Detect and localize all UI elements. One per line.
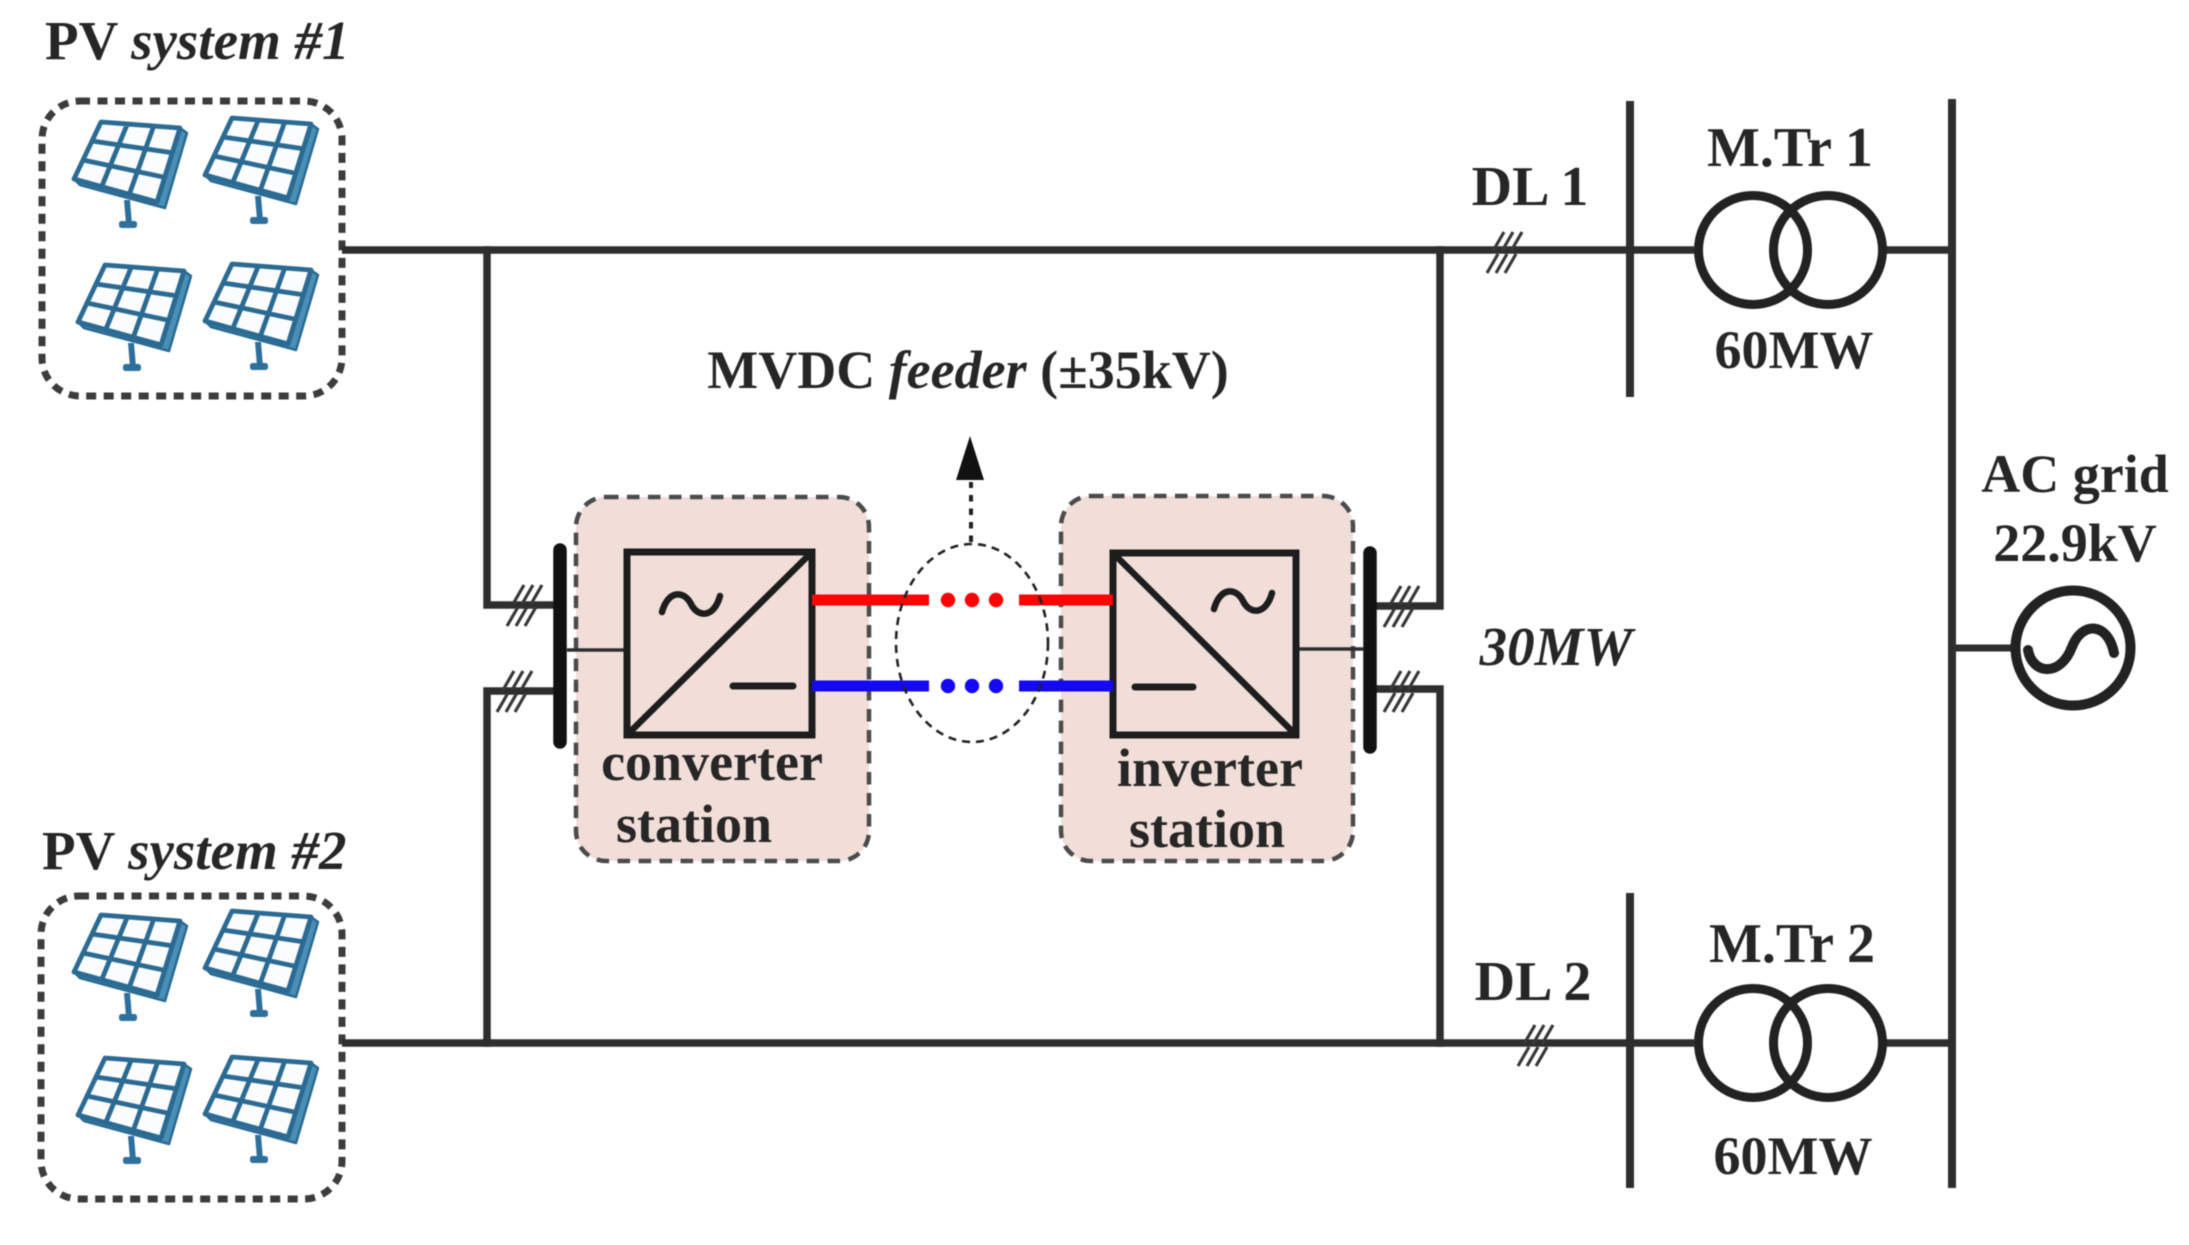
svg-text:converter: converter	[601, 732, 823, 792]
converter AC tilde	[662, 594, 720, 613]
wire inverter to bus	[1294, 647, 1364, 651]
PV panel 2d	[205, 1057, 318, 1163]
svg-text:M.Tr 2: M.Tr 2	[1709, 913, 1875, 975]
PV array box 2	[41, 896, 342, 1199]
hatch inv lower	[1384, 671, 1419, 712]
svg-text:station: station	[616, 794, 772, 854]
inverter AC bus bar	[1363, 553, 1377, 747]
inverter U2 square	[1113, 553, 1296, 735]
hatch conv upper	[507, 585, 542, 626]
svg-text:DL 1: DL 1	[1472, 156, 1589, 218]
svg-text:inverter: inverter	[1117, 738, 1303, 798]
wire bottom feeder DL2	[342, 1039, 1950, 1047]
MVDC negative pole wire	[812, 681, 1113, 692]
AC grid source G1	[2016, 591, 2131, 706]
AC grid bus	[1948, 99, 1956, 1188]
wire bus to converter	[567, 648, 629, 652]
wire right tap from inverter	[1378, 250, 1440, 1043]
wire bus to AC source	[1952, 645, 2014, 652]
inverter station box	[1061, 496, 1353, 861]
PV panel 2a	[74, 915, 187, 1021]
inverter U2 diagonal	[1113, 553, 1296, 735]
svg-text:AC grid: AC grid	[1981, 444, 2169, 504]
wire top feeder DL1	[342, 246, 1950, 254]
M.Tr1 feeder bar	[1626, 101, 1634, 397]
svg-text:PV system #1: PV system #1	[45, 10, 350, 71]
transformer M.Tr 1	[1699, 196, 1883, 305]
inverter DC dash	[1135, 684, 1193, 691]
hatch DL1	[1487, 232, 1522, 273]
converter U1 diagonal	[627, 552, 812, 735]
converter U1 square	[627, 552, 812, 735]
svg-text:M.Tr 1: M.Tr 1	[1707, 117, 1873, 179]
PV panel 2c	[78, 1058, 191, 1164]
PV panel 2b	[205, 911, 318, 1017]
M.Tr2 feeder bar	[1626, 893, 1634, 1188]
PV panel 1b	[205, 118, 318, 224]
MVDC positive pole wire	[812, 595, 1113, 606]
svg-text:60MW: 60MW	[1715, 320, 1874, 380]
svg-text:PV system #2: PV system #2	[42, 820, 347, 881]
transformer M.Tr 2	[1699, 989, 1883, 1098]
PV panel 1d	[205, 264, 318, 370]
PV panel 1a	[74, 122, 187, 228]
svg-text:station: station	[1129, 799, 1285, 859]
converter DC dash	[733, 683, 793, 690]
hatch DL2	[1518, 1025, 1553, 1066]
PV panel 1c	[78, 265, 191, 371]
inverter AC tilde	[1214, 591, 1272, 610]
svg-text:22.9kV: 22.9kV	[1993, 513, 2157, 573]
PV array box 1	[42, 101, 342, 396]
hatch inv upper	[1384, 586, 1419, 627]
svg-text:DL 2: DL 2	[1475, 951, 1592, 1013]
MVDC cable ellipse	[896, 544, 1048, 742]
svg-text:30MW: 30MW	[1479, 616, 1637, 677]
svg-text:MVDC feeder (±35kV): MVDC feeder (±35kV)	[707, 340, 1229, 400]
hatch conv lower	[497, 671, 532, 712]
wire left tap to converter	[487, 250, 553, 1043]
converter station box	[576, 497, 869, 861]
converter AC bus bar	[553, 550, 567, 742]
svg-text:60MW: 60MW	[1714, 1126, 1873, 1186]
arrow to feeder label	[969, 482, 973, 542]
